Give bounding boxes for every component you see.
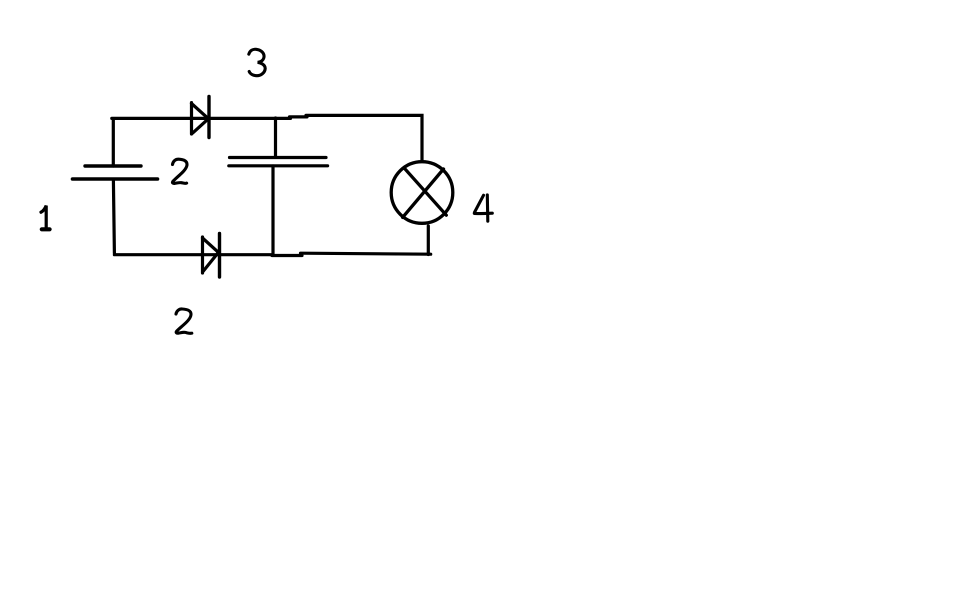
wire left vertical lower segment	[113, 181, 273, 255]
capacitor top lead	[274, 118, 277, 157]
battery cell 1 short plate	[85, 164, 141, 167]
capacitor top plate	[230, 156, 327, 159]
label 2 (bottom diode)	[176, 309, 192, 333]
diode D-top cathode bar	[207, 97, 210, 138]
wire top-right horizontal segment	[306, 115, 422, 160]
wire top-left horizontal segment	[112, 118, 291, 166]
diode D-bottom triangle upper diagonal	[203, 238, 218, 252]
label 3	[249, 49, 265, 75]
diode D-bottom triangle left edge	[201, 237, 204, 273]
lamp X diagonal NE-SW	[403, 169, 444, 217]
wire bottom middle segment	[272, 254, 302, 257]
diode D-bottom cathode bar	[218, 234, 221, 278]
lamp X diagonal NW-SE	[404, 168, 446, 215]
label 1	[41, 206, 50, 230]
capacitor bottom plate	[229, 164, 328, 167]
diode D-top triangle upper diagonal	[192, 104, 209, 119]
lamp circle	[391, 162, 453, 224]
label 4	[474, 195, 492, 221]
wire bottom-right horizontal segment	[301, 253, 431, 254]
capacitor bottom lead	[271, 166, 274, 255]
wire lamp bottom lead	[427, 226, 430, 255]
wire top middle step segment	[290, 115, 308, 118]
diode D-top triangle lower diagonal	[193, 120, 208, 134]
battery cell 1 long plate	[73, 177, 158, 181]
diode D-bottom triangle lower diagonal	[203, 254, 217, 272]
label 2 (battery)	[173, 159, 188, 183]
diode D-top triangle left edge	[190, 103, 193, 134]
